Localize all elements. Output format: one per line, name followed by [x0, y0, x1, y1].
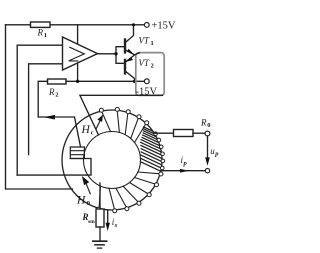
- svg-text:H: H: [76, 194, 86, 206]
- toroid core inner: [84, 132, 141, 189]
- svg-text:c: c: [91, 129, 94, 136]
- wire: op-amp non-inverting input loop: [17, 45, 62, 175]
- resistor Rsm: [96, 209, 104, 227]
- node: R2 to feedback junction: [76, 80, 79, 83]
- svg-text:H: H: [81, 124, 91, 136]
- svg-text:sm: sm: [88, 219, 95, 225]
- wire: op-amp inverting input loop: [29, 64, 63, 155]
- arrow H0 (measured field direction): [86, 184, 90, 194]
- svg-text:+15V: +15V: [152, 21, 176, 32]
- wire: R2 right lead / -15V rail: [66, 80, 144, 82]
- terminal: output top: [205, 131, 210, 136]
- wire: R0 to output terminal: [193, 132, 205, 134]
- wire: toroid lower lead to output terminal: [161, 170, 206, 172]
- wire: H0 winding bottom lead to Rsm: [99, 183, 101, 209]
- wire: emitter node to excitation loop: [134, 53, 139, 55]
- svg-text:p: p: [183, 160, 188, 167]
- node: VT2 collector on -15V rail: [133, 80, 136, 83]
- wire: op-amp output to transistor bases: [98, 47, 125, 64]
- current arrow ip: [180, 169, 189, 173]
- wire: compensation winding lower return (rect loop): [17, 159, 91, 176]
- svg-text:1: 1: [44, 32, 47, 39]
- resistor R1: [31, 22, 51, 27]
- winding bumps on dense band: [154, 132, 165, 170]
- transistor VT2: [124, 60, 126, 74]
- svg-text:1: 1: [151, 40, 154, 47]
- resistor R2: [48, 79, 67, 84]
- wire: toroid to R0: [154, 132, 173, 134]
- svg-text:2: 2: [151, 62, 154, 69]
- svg-text:R: R: [37, 28, 44, 38]
- wire: excitation line with arrow into winding: [38, 117, 80, 147]
- wire: left outer loop from R1 left down and to toroid bottom: [6, 25, 73, 189]
- arrow Hc (excitation field direction): [96, 121, 100, 129]
- wire: excitation return to toroid: [80, 95, 162, 135]
- svg-text:0: 0: [87, 200, 90, 207]
- wire: top rail from R1 to +15V terminal: [6, 24, 145, 26]
- power terminal -15V: [144, 79, 149, 84]
- winding wire loop bumps: [97, 107, 163, 212]
- svg-text:-15V: -15V: [136, 87, 158, 98]
- node: op-amp output junction: [114, 52, 117, 55]
- svg-text:R: R: [48, 87, 55, 97]
- toroid core outer: [62, 110, 162, 210]
- transistor VT1: [124, 40, 126, 53]
- svg-text:2: 2: [55, 92, 58, 99]
- voltage arrow up: [207, 137, 209, 158]
- svg-text:VT: VT: [139, 58, 150, 68]
- dense secondary winding (many turns): [140, 127, 162, 171]
- node: VT1 collector on +15V rail: [132, 23, 135, 26]
- op-amp U1: [63, 37, 98, 70]
- terminal: output bottom: [205, 169, 209, 173]
- current arrow is: [107, 210, 109, 224]
- current arrow on excitation line: [44, 115, 55, 120]
- compensation winding ladder turns: [70, 147, 84, 159]
- svg-text:s: s: [114, 222, 118, 229]
- ground: [93, 240, 107, 242]
- power terminal +15V: [144, 23, 149, 28]
- secondary winding turn spokes: [99, 110, 160, 210]
- wire: R2 left lead down to excitation line: [38, 81, 47, 117]
- svg-text:0: 0: [207, 122, 210, 129]
- excitation loop wire (grey rounded box): [136, 53, 164, 96]
- svg-text:R: R: [200, 118, 207, 128]
- svg-text:VT: VT: [139, 35, 150, 45]
- wire: feedback vertical node (R1 right to R2 right, behind op-amp): [77, 25, 79, 82]
- wire: Rsm to ground: [99, 227, 101, 241]
- resistor R0: [174, 130, 194, 137]
- svg-text:p: p: [214, 151, 219, 158]
